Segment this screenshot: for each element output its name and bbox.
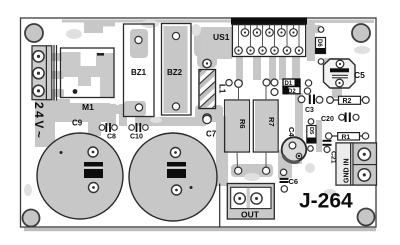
pin pad D1 right (305, 80, 311, 86)
wire behind US1 label (201, 27, 232, 59)
pin pad L1 bottom / C7 (203, 114, 211, 122)
fuse BZ1 (124, 24, 155, 117)
svg-text:24V~: 24V~ (32, 102, 46, 140)
wire R6 lead bottom (236, 152, 239, 167)
capacitor C5 (electrolytic, octagon) (324, 59, 356, 88)
svg-text:C8: C8 (107, 134, 116, 141)
wire faint scan speckles (24, 20, 370, 196)
svg-text:C5: C5 (354, 70, 365, 80)
capacitor C21 vertical (323, 141, 332, 153)
svg-text:BZ2: BZ2 (167, 68, 183, 77)
wire central band (54, 103, 110, 122)
wire US1 comb strip 4 (279, 56, 286, 80)
svg-text:GND IN: GND IN (344, 159, 351, 184)
svg-text:C7: C7 (206, 130, 217, 139)
wire L1 top pad region (197, 54, 217, 68)
wire OUT pads blob (231, 164, 273, 177)
wire inside M1 right blob (96, 53, 114, 66)
pin pad via right (271, 79, 278, 86)
svg-text:C6: C6 (289, 177, 299, 186)
pin pad BZ2 top (172, 32, 179, 39)
wire R7 lead top (265, 86, 267, 100)
resistor R1 (326, 133, 369, 141)
bridge M1 pin dot (73, 89, 78, 94)
svg-text:C4: C4 (287, 127, 296, 137)
wire BZ1 top pad blob (130, 29, 148, 58)
pin pad R6 top (235, 80, 243, 88)
wire inside M1 tongue (78, 76, 91, 86)
capacitor C9 symbol top pad (88, 147, 98, 157)
wire silk line left of OUT (219, 184, 221, 228)
pin pad D2 left (271, 89, 278, 96)
svg-text:R6: R6 (238, 119, 247, 129)
mounting hole bottom-left (23, 210, 40, 227)
fuse BZ2 (162, 24, 192, 116)
svg-text:J-264: J-264 (299, 190, 353, 213)
IC US1 lead lines (239, 25, 300, 51)
wire inside M1 bottom right (100, 77, 114, 97)
capacitor C10s small (129, 123, 148, 132)
svg-text:D2: D2 (288, 89, 296, 95)
capacitor C10 outline (129, 133, 217, 221)
capacitor C4 (electrolytic circle) (282, 137, 307, 162)
IC US1 heatsink bar (231, 17, 307, 24)
capacitor C10 bottom pad (172, 185, 182, 195)
wire top lump B (100, 20, 115, 27)
svg-text:C20: C20 (321, 116, 334, 123)
wire R7 interior (255, 101, 277, 151)
svg-text:M1: M1 (82, 102, 94, 112)
wire input pad3 to bridge (50, 89, 64, 97)
svg-text:C3: C3 (305, 107, 314, 114)
diode D1 (283, 79, 300, 87)
pin pad AC 3 (33, 85, 44, 96)
svg-text:R1: R1 (342, 134, 351, 141)
wire top band right (307, 20, 374, 24)
svg-text:R2: R2 (343, 98, 352, 105)
copper pour capacitor C9 body (37, 133, 123, 219)
pin pad AC 2 (33, 68, 44, 79)
svg-text:L1: L1 (218, 84, 227, 94)
wire input pad2 to bridge (50, 71, 64, 79)
resistor R6 (225, 100, 250, 152)
svg-text:BZ1: BZ1 (131, 68, 147, 77)
pin pad L1 top (203, 59, 211, 67)
wire D5 column (316, 120, 322, 152)
wire C4 to C6 blob (278, 150, 302, 178)
pin pads US1 row lower (235, 47, 303, 55)
wire band under BZ row (135, 117, 206, 126)
pin pad D2 right (304, 88, 310, 94)
svg-text:US1: US1 (213, 32, 230, 42)
resistor R7 (253, 100, 278, 152)
capacitor C6 (280, 169, 289, 192)
mounting hole top-right (352, 24, 370, 42)
copper pour capacitor C10 body (129, 133, 217, 221)
svg-text:C9: C9 (72, 119, 83, 128)
wire US1 comb strip 3 (269, 56, 276, 83)
capacitor C9 polarity stripe (84, 162, 103, 178)
pin pad BZ1 top (135, 36, 142, 43)
wire BZ2 interior (164, 26, 188, 113)
diode D5 (307, 119, 316, 152)
pin pad OUT right wire (263, 167, 270, 174)
wire R7 lead bottom (265, 152, 267, 167)
wire top-left blob (84, 20, 103, 34)
wire D6 pad nub (311, 25, 322, 33)
wire central band left vertical (35, 93, 55, 147)
pin pad C7 top (203, 115, 211, 123)
mounting hole bottom-right (358, 209, 375, 226)
wire inside M1 left blob (62, 52, 81, 67)
mounting hole top-left (25, 24, 43, 42)
wire strip to C10 (119, 104, 127, 126)
wire to C4 (295, 93, 303, 141)
wire GND IN interior (352, 144, 376, 184)
wire US1 comb strip 2 (253, 56, 261, 80)
bridge rectifier M1 (61, 48, 115, 98)
wire above L1 (194, 31, 208, 57)
pin pad BZ1 bottom (135, 104, 142, 111)
wire central band left part (38, 100, 66, 122)
svg-text:R7: R7 (267, 117, 276, 127)
wire R6 interior (226, 101, 248, 151)
board outline (21, 18, 377, 227)
svg-text:C10: C10 (130, 134, 143, 141)
diode D2 (283, 87, 300, 95)
pin pad R7 top (263, 79, 270, 86)
capacitor C8 small (99, 123, 117, 132)
wire central band right nub (108, 105, 120, 114)
wire C5 to R2 row (332, 84, 342, 98)
wire BZ1 bottom blob (124, 101, 146, 116)
wire L1 bottom region (195, 105, 223, 122)
wire strip into C9 (88, 120, 101, 136)
capacitor C10 plus dot (190, 186, 193, 189)
connector OUT block (227, 184, 274, 220)
pin pad BZ2 bottom (172, 103, 179, 110)
pin pad OUT left wire (235, 167, 242, 174)
capacitor C20 (339, 113, 359, 123)
wire US1 comb strip 1 (236, 56, 243, 84)
wire inside M1 middle band (62, 66, 114, 77)
svg-text:OUT: OUT (241, 210, 260, 220)
capacitor C10 symbol top pad (171, 148, 181, 158)
board shadow bottom (24, 228, 376, 231)
wire right of C10 to OUT (216, 116, 228, 186)
wire R6 lead top (238, 87, 240, 100)
wire top band left (62, 20, 231, 23)
wire input pad1 to bridge (50, 53, 64, 61)
bridge M1 minus mark (97, 53, 104, 56)
wire D6 to C5 (322, 58, 342, 67)
wire D6 strip (307, 20, 315, 61)
inductor L1 hatched body (196, 53, 220, 126)
pin pad via left of R6 (226, 80, 232, 86)
diode D6 (316, 27, 326, 65)
connector GND IN block (336, 143, 377, 185)
resistor R2 (327, 96, 370, 105)
capacitor C9 bottom pad (89, 183, 99, 193)
wire below M1 nub (56, 99, 70, 113)
wire strip to C8 (107, 104, 116, 126)
capacitor C9 plus dot (60, 151, 63, 154)
capacitor C9 outline (37, 133, 123, 219)
svg-text:D6: D6 (316, 39, 322, 47)
svg-text:D5: D5 (308, 127, 314, 135)
wire terminal interior (34, 47, 50, 98)
capacitor C3 (298, 95, 323, 105)
connector AC input block (32, 45, 57, 101)
pin pad AC 1 (33, 51, 44, 62)
wire US1 comb strip 5 (292, 56, 300, 81)
IC US1 body (232, 25, 305, 57)
capacitor C10 polarity stripe (167, 162, 186, 178)
pin pads US1 row upper (241, 29, 297, 37)
